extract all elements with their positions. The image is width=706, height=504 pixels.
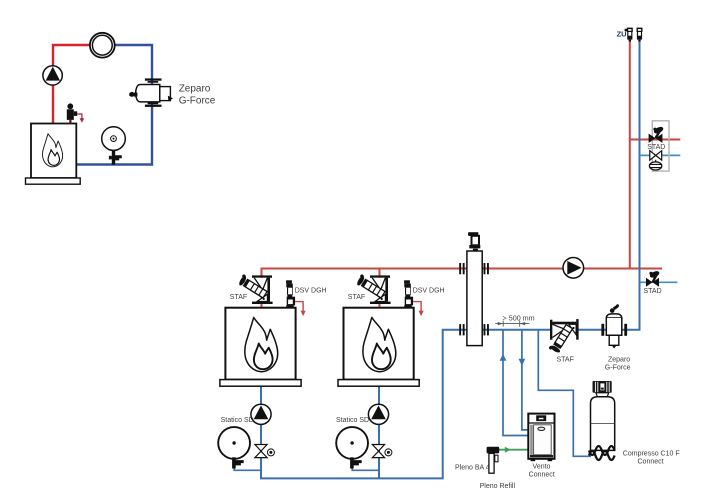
svg-text:STAF: STAF: [230, 294, 247, 301]
svg-text:> 500 mm: > 500 mm: [503, 314, 535, 323]
svg-text:Vento: Vento: [533, 463, 551, 470]
svg-text:STAD: STAD: [647, 144, 665, 151]
svg-text:Pleno Refill: Pleno Refill: [480, 483, 516, 490]
svg-text:Connect: Connect: [529, 471, 555, 478]
svg-text:STAD: STAD: [644, 288, 662, 295]
svg-text:ZU: ZU: [617, 30, 627, 39]
svg-text:Connect: Connect: [638, 458, 664, 465]
svg-text:Zeparo: Zeparo: [608, 357, 630, 364]
svg-text:Statico SD: Statico SD: [336, 417, 369, 424]
svg-text:STAF: STAF: [348, 294, 365, 301]
svg-text:DSV DGH: DSV DGH: [295, 287, 327, 294]
svg-text:G-Force: G-Force: [179, 96, 216, 107]
svg-text:G-Force: G-Force: [605, 365, 631, 372]
svg-text:STAF: STAF: [557, 357, 574, 364]
svg-text:DSV DGH: DSV DGH: [413, 287, 445, 294]
svg-text:Statico SD: Statico SD: [221, 417, 254, 424]
svg-text:Pleno BA 4: Pleno BA 4: [455, 464, 490, 471]
svg-text:Zeparo: Zeparo: [179, 84, 211, 95]
svg-text:Compresso C10 F: Compresso C10 F: [623, 450, 680, 457]
